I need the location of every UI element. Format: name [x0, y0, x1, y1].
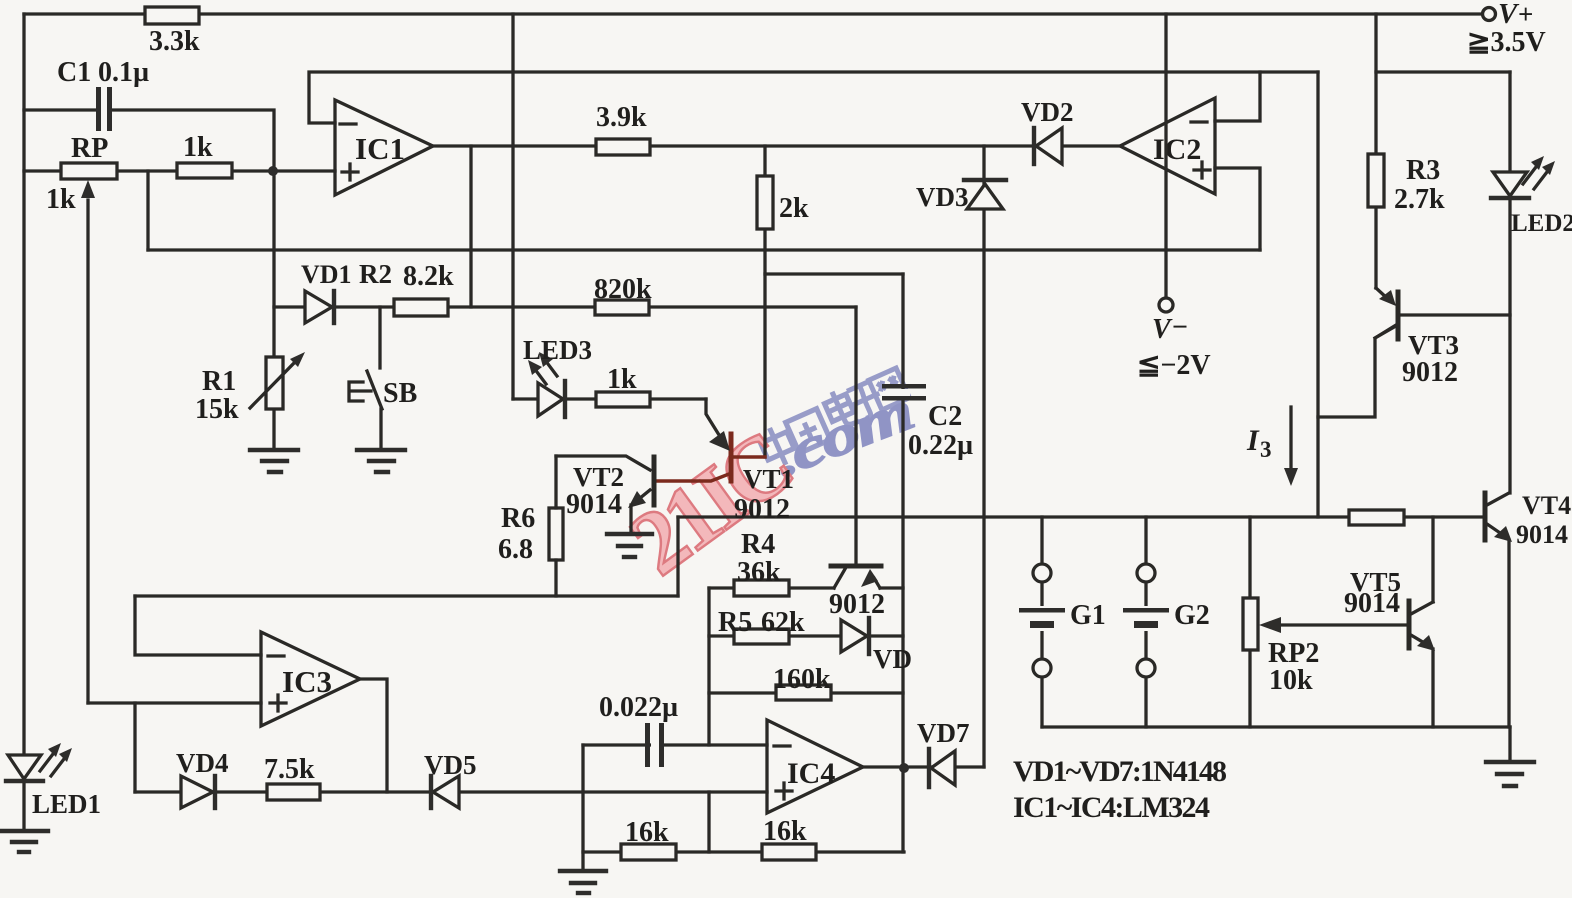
diode VD (R5) — [841, 618, 869, 654]
resistor R1 15k — [266, 357, 283, 409]
svg-text:−: − — [1172, 312, 1188, 343]
wire RP2 column — [1248, 517, 1251, 727]
svg-text:9012: 9012 — [1402, 357, 1458, 388]
svg-text:IC1~IC4:LM324: IC1~IC4:LM324 — [1013, 791, 1210, 824]
svg-text:VD2: VD2 — [1021, 97, 1074, 127]
svg-text:IC3: IC3 — [282, 664, 332, 699]
resistor 1k (input) — [177, 163, 232, 178]
transistor 9012 (R4) — [831, 566, 881, 588]
diode VD7 — [929, 749, 955, 787]
svg-text:0.1µ: 0.1µ — [98, 57, 149, 88]
svg-text:1k: 1k — [607, 364, 637, 395]
svg-text:9014: 9014 — [566, 489, 622, 520]
svg-text:9014: 9014 — [1516, 520, 1568, 549]
resistor R3 2.7k — [1368, 154, 1384, 207]
wire VT3 collector link — [1318, 325, 1396, 417]
svg-text:9014: 9014 — [1344, 588, 1400, 619]
svg-text:6.8: 6.8 — [498, 534, 533, 565]
op-amp IC1 — [335, 100, 433, 195]
junction dot (1k / IC1+) — [268, 166, 278, 176]
wire VT5 collector column — [1431, 517, 1434, 602]
wire C1 line and drop to R1 — [24, 110, 274, 357]
RP wiper arrow — [81, 180, 95, 198]
wire VT3 base line — [1400, 313, 1510, 316]
wire IC2 inverting to feedback line — [1215, 72, 1260, 121]
wire 160k line — [709, 691, 903, 694]
svg-text:15k: 15k — [195, 394, 239, 425]
junction dot (IC4 out) — [899, 763, 909, 773]
transistor VT1 9012 — [654, 399, 765, 481]
capacitor 0.022u — [645, 723, 664, 767]
svg-text:0.22µ: 0.22µ — [908, 430, 973, 461]
diode VD1 — [305, 291, 334, 323]
transistor VT3 9012 — [1375, 288, 1398, 339]
transistor VT5 9014 — [1409, 601, 1435, 651]
wire IC3 inverting riser — [135, 596, 261, 655]
wire RP right drop — [146, 171, 149, 250]
svg-text:VT2: VT2 — [573, 462, 624, 492]
LED2 — [1491, 156, 1555, 198]
svg-text:9012: 9012 — [734, 494, 790, 525]
svg-text:C2: C2 — [928, 401, 962, 432]
terminal V- — [1159, 298, 1173, 312]
LED1 — [6, 743, 72, 781]
LED3 — [528, 352, 565, 417]
wire IC3 output — [360, 679, 387, 792]
wire RP wiper column — [86, 200, 89, 703]
resistor R4 36k — [734, 580, 789, 596]
svg-text:2k: 2k — [779, 193, 809, 224]
svg-text:36k: 36k — [737, 557, 781, 588]
wire 9012 emitter to C2 column — [880, 586, 903, 589]
ground (bottom right) — [1486, 762, 1534, 786]
svg-text:9012: 9012 — [829, 589, 885, 620]
wire IC3 noninverting input — [88, 701, 261, 704]
ground (VT2) — [607, 534, 652, 557]
svg-text:1k: 1k — [46, 184, 76, 215]
transistor VT4 9014 — [1485, 493, 1512, 542]
resistor 1k (LED3) — [596, 392, 650, 407]
wire RP / 1k input line — [24, 169, 335, 172]
svg-text:VD1: VD1 — [301, 260, 352, 289]
capacitor C2 — [882, 384, 926, 401]
svg-text:1k: 1k — [183, 132, 213, 163]
resistor on mid rail — [1349, 510, 1404, 525]
terminal V+ — [1483, 8, 1496, 21]
svg-text:R5: R5 — [718, 607, 752, 638]
wire IC1 output to R2 line drop — [469, 146, 472, 307]
wire IC3 feedback line — [135, 594, 678, 597]
resistor 3.3k — [145, 7, 199, 24]
svg-text:VT1: VT1 — [743, 464, 794, 494]
svg-text:+: + — [1518, 0, 1533, 29]
resistor 16k right — [762, 844, 816, 860]
wire noninverting rail — [148, 248, 1260, 251]
wire bottom rail — [1042, 725, 1510, 728]
svg-text:I: I — [1246, 424, 1260, 457]
svg-text:LED3: LED3 — [523, 335, 592, 365]
wire mid rail corner down — [676, 517, 679, 596]
svg-text:160k: 160k — [773, 664, 831, 695]
wire IC1 output line — [433, 144, 1120, 147]
svg-text:V: V — [1152, 314, 1173, 345]
ground (R1) — [250, 450, 298, 472]
diode VD2 — [1034, 128, 1062, 164]
svg-text:V: V — [1498, 0, 1520, 30]
svg-text:LED2: LED2 — [1511, 210, 1572, 237]
op-amp IC3 — [261, 632, 360, 726]
capacitor C1 — [96, 87, 112, 131]
wire VD4 7.5k VD5 line — [135, 790, 767, 793]
svg-text:VD7: VD7 — [917, 718, 970, 748]
svg-text:≧3.5V: ≧3.5V — [1467, 27, 1546, 58]
resistor 160k — [776, 685, 831, 700]
wire LED1 cathode to ground — [22, 781, 25, 830]
wire R4 line — [709, 586, 834, 589]
wire 16k line — [583, 850, 904, 853]
wire IC4 ground column — [581, 745, 584, 870]
svg-text:G1: G1 — [1070, 600, 1106, 631]
resistor 820k — [595, 300, 649, 315]
wire 820k corner to 9012 base — [854, 307, 857, 564]
svg-text:R6: R6 — [501, 503, 535, 534]
svg-text:R2: R2 — [359, 259, 392, 289]
svg-text:2.7k: 2.7k — [1394, 184, 1445, 215]
svg-text:R1: R1 — [202, 366, 236, 397]
svg-text:IC2: IC2 — [1153, 133, 1201, 166]
wire IC3 plus node drop — [133, 703, 136, 792]
wire G2 column — [1144, 517, 1147, 727]
wire V+ top rail — [24, 12, 1482, 15]
diode VD3 — [964, 180, 1006, 209]
resistor 3.9k — [596, 139, 650, 155]
svg-text:VD5: VD5 — [424, 750, 477, 780]
resistor 2k — [757, 176, 773, 229]
svg-text:0.022µ: 0.022µ — [599, 692, 678, 723]
resistor R1 arrow — [250, 361, 296, 408]
svg-text:G2: G2 — [1174, 600, 1210, 631]
svg-text:VD3: VD3 — [916, 182, 969, 212]
RP2 wiper arrow wire — [1272, 623, 1407, 626]
wire 16k mid column — [707, 792, 710, 852]
ground (SB) — [357, 450, 405, 472]
wire IC1/IC2 inverting feedback line — [309, 72, 1318, 123]
current arrow I3 — [1289, 407, 1292, 474]
wire VT4 emitter column — [1507, 540, 1510, 727]
resistor 16k left — [621, 844, 676, 860]
wire IC2 noninverting to rail — [1215, 168, 1260, 250]
wire IC4 output to VD7 — [863, 765, 984, 768]
resistor R2 8.2k — [394, 299, 448, 316]
battery G1 — [1019, 564, 1065, 677]
transistor VT2 9014 — [556, 456, 654, 596]
resistor 7.5k — [267, 784, 320, 800]
wire VD3/VD7 column — [982, 146, 985, 767]
wire C2 branch horizontal — [765, 272, 903, 275]
svg-text:16k: 16k — [625, 817, 669, 848]
resistor RP 1k potentiometer — [61, 163, 117, 179]
wire bottom rail ground stub — [1508, 727, 1511, 761]
svg-text:VD4: VD4 — [176, 748, 229, 778]
svg-text:IC4: IC4 — [787, 757, 835, 790]
wire feedback column right — [1316, 72, 1319, 517]
wire 2k drop / VT1 base column — [763, 146, 766, 457]
wire R3 column — [1374, 14, 1377, 288]
switch SB pushbutton bracket — [349, 382, 371, 401]
svg-text:10k: 10k — [1269, 665, 1313, 696]
wire SB blade — [367, 371, 382, 409]
op-amp IC4 — [767, 720, 863, 813]
svg-text:VT4: VT4 — [1522, 491, 1571, 520]
wire LED2 column — [1508, 72, 1511, 493]
svg-text:VT3: VT3 — [1408, 330, 1459, 360]
wire IC4 inverting input line — [583, 743, 767, 746]
wire LED3 1k line — [513, 397, 706, 400]
svg-text:R4: R4 — [741, 529, 775, 560]
diode VD5 — [431, 776, 459, 808]
svg-text:VD1~VD7:1N4148: VD1~VD7:1N4148 — [1013, 755, 1227, 788]
resistor RP2 10k — [1243, 598, 1258, 650]
svg-text:62k: 62k — [761, 607, 805, 638]
wire top rail to LED3 column — [511, 14, 514, 399]
svg-text:7.5k: 7.5k — [264, 754, 315, 785]
svg-text:SB: SB — [383, 378, 417, 409]
svg-text:IC1: IC1 — [355, 131, 405, 166]
wire mid rail — [678, 515, 1483, 518]
wire SB bottom — [379, 409, 382, 449]
svg-text:3.3k: 3.3k — [149, 26, 200, 57]
wire R4 R5 160k left column — [707, 588, 710, 745]
svg-text:8.2k: 8.2k — [403, 261, 454, 292]
wire SB top — [378, 307, 381, 368]
op-amp IC2 — [1120, 98, 1215, 194]
svg-text:LED1: LED1 — [32, 789, 101, 819]
wire R1 to ground — [272, 409, 275, 449]
svg-text:R3: R3 — [1406, 155, 1440, 186]
ground (LED1) — [0, 831, 48, 852]
wire G1 column — [1040, 517, 1043, 727]
wire C2 column — [901, 274, 904, 852]
svg-text:3.9k: 3.9k — [596, 102, 647, 133]
battery G2 — [1123, 564, 1169, 677]
wire R5 VD line — [709, 634, 903, 637]
resistor R5 62k — [734, 629, 789, 644]
svg-text:820k: 820k — [594, 274, 652, 305]
svg-text:RP: RP — [71, 133, 108, 164]
svg-text:16k: 16k — [763, 816, 807, 847]
resistor R6 6.8 — [549, 508, 563, 560]
wire VD1 R2 820k line — [274, 305, 856, 308]
watermark 中国电子网 — [756, 368, 909, 471]
wire R3 branch to LED2 — [1376, 70, 1510, 73]
ground (IC4) — [560, 871, 606, 893]
svg-text:C1: C1 — [57, 57, 91, 88]
diode VD4 — [181, 776, 215, 808]
svg-text:VD: VD — [873, 644, 912, 674]
wire V- column through IC2 — [1164, 14, 1167, 298]
wire VT5 emitter column — [1431, 649, 1434, 727]
svg-text:3: 3 — [1260, 437, 1272, 462]
svg-text:≦−2V: ≦−2V — [1137, 350, 1211, 381]
wire left border vertical — [22, 14, 25, 755]
